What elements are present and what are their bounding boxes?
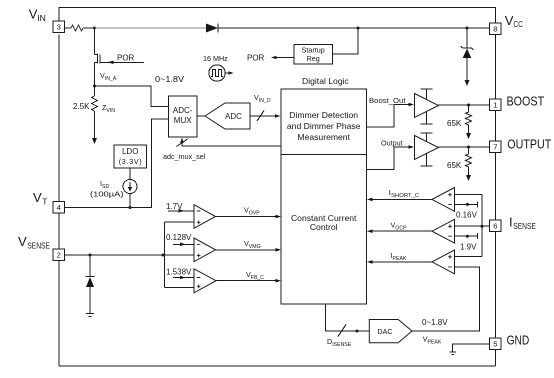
svg-text:IN: IN (37, 13, 46, 23)
svg-text:7: 7 (493, 143, 497, 152)
node zener tap (466, 27, 469, 30)
wire 1.9V ref to comp minus (455, 233, 478, 239)
svg-text:Control: Control (310, 222, 338, 232)
diode D1 (206, 24, 218, 33)
svg-text:OUTPUT: OUTPUT (507, 137, 551, 152)
pin 1 (490, 99, 502, 111)
wire I_PEAK to CCC (367, 260, 432, 264)
wire comp3 plus to bus (455, 256, 483, 258)
svg-text:Reg: Reg (307, 54, 320, 63)
node VIN_A junction (93, 85, 96, 88)
svg-text:CC: CC (513, 19, 523, 29)
wire 0.128V ref to comp2 minus (173, 243, 194, 247)
svg-text:0.16V: 0.16V (456, 211, 478, 220)
svg-text:and Dimmer Phase: and Dimmer Phase (287, 121, 361, 131)
wire VIN node down to Q1 (94, 28, 96, 55)
svg-text:(100µA): (100µA) (90, 190, 124, 199)
wire ADC-MUX to ADC (197, 115, 205, 117)
resistor R1 input series (71, 25, 83, 31)
svg-text:SENSE: SENSE (513, 221, 536, 231)
svg-text:Boost_Out: Boost_Out (369, 96, 406, 105)
sink arrow R3 (466, 133, 471, 139)
wire Output (367, 145, 415, 169)
adc ADC (205, 103, 250, 129)
wire V_OCP to CCC (367, 229, 432, 233)
wire V_OVP to CCC (216, 215, 282, 219)
svg-text:5: 5 (493, 340, 497, 349)
wire VT pin to ADC-MUX input 2 (65, 119, 169, 208)
dac DAC (369, 320, 412, 343)
resistor R3 65K (466, 105, 472, 133)
sink arrow R4 (466, 175, 471, 181)
svg-text:0~1.8V: 0~1.8V (155, 75, 185, 84)
node VSENSE bus tap (162, 254, 165, 257)
svg-text:8: 8 (493, 25, 497, 34)
comparator U8 V_OCP (points left) (432, 219, 455, 243)
svg-text:1.7V: 1.7V (166, 202, 183, 211)
wire POR arrow from startup reg (271, 56, 294, 60)
svg-text:Digital Logic: Digital Logic (302, 76, 350, 86)
buffer U2 boost driver (415, 89, 439, 124)
comparator U9 I_PEAK (points left) (432, 250, 455, 274)
svg-text:0.128V: 0.128V (166, 233, 192, 242)
svg-text:2.5K: 2.5K (73, 102, 90, 111)
svg-text:Dimmer Detection: Dimmer Detection (289, 110, 358, 120)
diode D2 (VSENSE clamp) (86, 255, 95, 317)
wire VIN pin to R1 (65, 27, 72, 29)
pin 6 (490, 220, 502, 232)
svg-text:V: V (18, 234, 27, 249)
wire V_PEAK from DAC to comp3 minus (412, 267, 480, 331)
svg-text:2: 2 (57, 251, 61, 260)
wire adc_mux_sel (180, 138, 281, 147)
wire 0.16V ref to comp minus (455, 201, 478, 207)
wire Q1 to node VIN_A (94, 63, 96, 97)
svg-text:4: 4 (57, 203, 61, 212)
svg-text:Output: Output (381, 139, 403, 148)
resistor R2 2.5K (92, 96, 98, 111)
bus slash D_ISENSE (338, 325, 346, 337)
node output divider (467, 146, 470, 149)
wire startup reg to VCC rail (333, 28, 359, 54)
wire VSENSE pin to comparator bus (65, 254, 165, 256)
pin 5 (490, 338, 502, 350)
comparator U5 V_VMG (194, 238, 216, 262)
node on VT rail (129, 206, 132, 209)
wire 1.538V ref to comp3 minus (173, 276, 194, 280)
svg-text:(3.3V): (3.3V) (119, 157, 142, 166)
node VIN_rail junction (93, 27, 96, 30)
svg-text:65K: 65K (447, 161, 462, 170)
current source I_SD (123, 180, 137, 194)
label Dimmer Detection block (287, 110, 361, 142)
wire D1 to VCC pin 8 (218, 27, 490, 29)
svg-text:1.9V: 1.9V (460, 243, 477, 252)
pin 4 (53, 202, 65, 214)
svg-text:0~1.8V: 0~1.8V (422, 318, 448, 327)
svg-text:1: 1 (493, 101, 497, 110)
block digital logic box (281, 89, 367, 304)
IC boundary right (495, 35, 497, 366)
wire U2 to BOOST pin (439, 104, 490, 106)
ground symbol (450, 352, 457, 355)
svg-text:V: V (33, 190, 42, 205)
regulator Startup Reg box (294, 45, 333, 65)
wire 1.7V ref to comp1 minus (168, 209, 194, 213)
wire U3 to OUTPUT pin (439, 146, 490, 148)
svg-text:1.538V: 1.538V (166, 268, 192, 277)
wire I_SD to VT rail (129, 194, 131, 208)
wire VIN rail grey segment (95, 27, 207, 29)
wire LDO to current source I_SD (129, 168, 131, 180)
divider dimmer/ccc (281, 154, 367, 156)
IC boundary left (58, 34, 60, 366)
resistor R4 65K (466, 147, 472, 175)
wire Boost_Out (367, 103, 415, 128)
IC boundary top (59, 8, 496, 24)
mux ADC-MUX (169, 96, 198, 137)
comparator U4 V_OVP (194, 205, 216, 229)
node VSENSE diode tap (89, 254, 92, 257)
wire to comp2 plus (165, 254, 194, 256)
svg-text:POR: POR (117, 54, 135, 63)
bus slash adc_mux_sel (177, 139, 188, 147)
oscillator 16MHz (209, 65, 234, 81)
pin 7 (490, 141, 502, 153)
buffer U3 output driver (415, 133, 439, 166)
svg-text:6: 6 (493, 222, 497, 231)
pin 2 (53, 249, 65, 261)
wire GND pin to ground (453, 344, 490, 352)
svg-text:adc_mux_sel: adc_mux_sel (163, 152, 206, 161)
regulator LDO box (114, 145, 147, 168)
wire R2 to sink arrow (94, 111, 96, 138)
node boost divider (467, 104, 470, 107)
svg-text:BOOST: BOOST (507, 94, 545, 109)
svg-text:T: T (42, 196, 47, 206)
svg-text:16 MHz: 16 MHz (203, 54, 228, 63)
comparator plus bus (164, 222, 166, 288)
pin 8 (490, 23, 502, 35)
svg-text:ADC-: ADC- (173, 106, 193, 115)
IC boundary bottom (59, 365, 496, 367)
wire D_ISENSE CCC to DAC (325, 304, 369, 331)
wire I_SHORT_C to CCC (367, 198, 432, 202)
comparator U7 I_SHORT_C (points left) (432, 188, 455, 212)
zener D3 at VCC (461, 28, 474, 86)
wire to comp3 plus (165, 287, 194, 289)
wire comp2 plus to ISENSE pin (455, 225, 490, 227)
svg-text:LDO: LDO (122, 147, 138, 156)
transistor Q1 PMOS (95, 54, 145, 65)
svg-text:MUX: MUX (174, 116, 192, 125)
svg-text:SENSE: SENSE (27, 240, 50, 250)
wire R1 to VIN rail node (83, 27, 95, 29)
bus slash VIN_D (257, 111, 264, 122)
node ISENSE junction (481, 225, 484, 228)
wire to comp1 plus (165, 221, 194, 223)
svg-text:GND: GND (507, 333, 530, 348)
svg-text:DAC: DAC (377, 327, 392, 336)
comparator U6 V_FB_C (194, 269, 216, 293)
label Constant Current Control block (291, 213, 357, 232)
svg-text:ADC: ADC (225, 112, 242, 121)
node D_ISENSE dot (356, 330, 359, 333)
wire comp plus bus right top (455, 195, 483, 257)
wire V_FB_C to CCC (216, 279, 281, 283)
wire V_VMG to CCC (216, 248, 282, 252)
wire VIN_D ADC to digital logic (250, 114, 281, 118)
svg-text:I: I (509, 215, 513, 230)
node startup tap (357, 27, 360, 30)
current sink arrow below R2 (92, 138, 97, 144)
svg-text:POR: POR (247, 54, 265, 63)
svg-text:Measurement: Measurement (297, 132, 350, 142)
svg-text:65K: 65K (447, 119, 462, 128)
svg-text:3: 3 (57, 23, 61, 32)
pin 3 (53, 21, 65, 33)
wire VIN_A to ADC-MUX input 1 (95, 86, 169, 107)
